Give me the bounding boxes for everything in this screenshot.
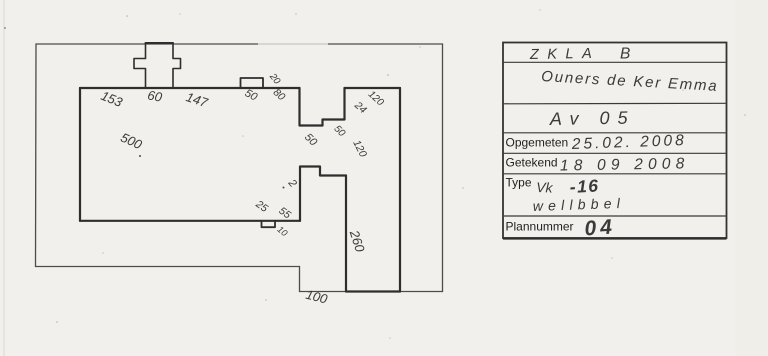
- chimney left side: [134, 43, 146, 88]
- dot after 500: [139, 155, 141, 157]
- svg-text:ZKLA: ZKLA: [529, 46, 601, 63]
- small notch below bottom wall: [262, 221, 276, 227]
- wall top: [80, 87, 300, 89]
- title block row line 5: [503, 173, 727, 175]
- wall bottom: [80, 220, 300, 222]
- title block bottom border emphasis: [503, 237, 727, 239]
- paper shading right: [735, 0, 768, 356]
- svg-text:Type: Type: [506, 176, 532, 190]
- svg-text:Av 05: Av 05: [549, 108, 636, 130]
- title block row line 2: [503, 102, 727, 105]
- wall left: [79, 88, 81, 221]
- wing top: [345, 87, 401, 89]
- speck top mid: [126, 15, 128, 17]
- boundary step down: [299, 267, 301, 292]
- scan specks: [102, 9, 746, 339]
- svg-text:04: 04: [584, 215, 617, 240]
- chimney right side: [173, 43, 181, 88]
- svg-text:Vk: Vk: [536, 179, 554, 196]
- wing bottom: [346, 290, 400, 292]
- top notch outline: [300, 88, 345, 126]
- svg-text:Opgemeten: Opgemeten: [506, 136, 569, 150]
- chimney top: [146, 42, 174, 44]
- wing left: [345, 176, 347, 292]
- boundary right: [442, 44, 444, 292]
- title block row line 3: [503, 132, 727, 134]
- wing right: [399, 88, 401, 292]
- boundary top: [36, 43, 443, 45]
- svg-text:B: B: [620, 46, 630, 63]
- svg-text:wellbbel: wellbbel: [533, 195, 626, 214]
- speck bottom: [56, 321, 58, 323]
- svg-text:Getekend: Getekend: [506, 156, 558, 170]
- corridor bottom edge: [300, 167, 346, 221]
- boundary left: [35, 44, 38, 267]
- svg-text:18 09 2008: 18 09 2008: [560, 155, 690, 174]
- title block row line 4: [503, 152, 727, 154]
- title block row line 6: [503, 215, 727, 217]
- boundary bottom left segment: [36, 266, 300, 268]
- speck: [295, 13, 296, 14]
- scan fade on boundary top: [258, 42, 328, 47]
- speck top left: [4, 27, 6, 29]
- title block row line 1: [503, 61, 727, 63]
- bump on top wall: [241, 78, 264, 88]
- boundary bottom right segment: [300, 291, 443, 293]
- dot near 2: [283, 187, 285, 189]
- svg-text:Plannummer: Plannummer: [506, 219, 574, 233]
- title block border: [503, 43, 727, 239]
- svg-text:-16: -16: [569, 175, 600, 197]
- paper fold line left edge: [3, 0, 5, 356]
